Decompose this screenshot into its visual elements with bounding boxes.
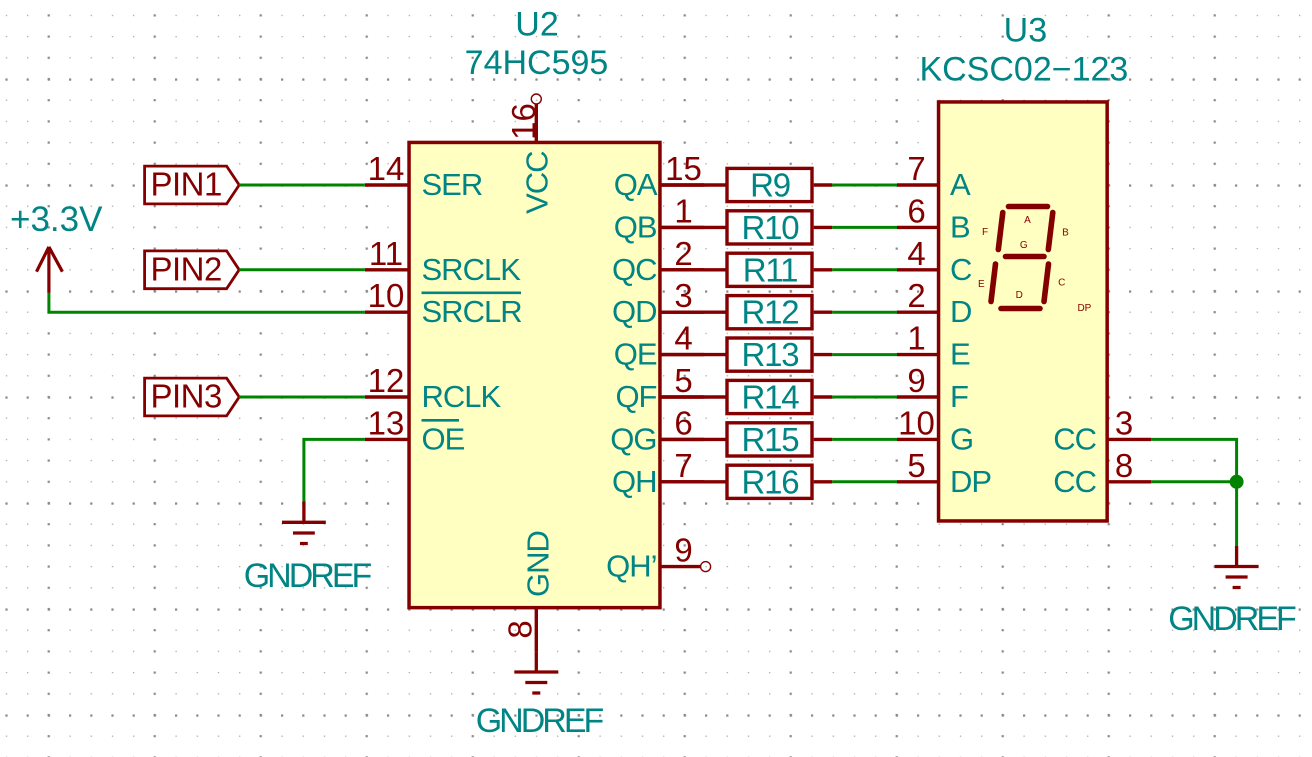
7-seg display segment E [991,264,996,302]
U2 pin name OE [422,421,465,456]
resistor R16 body [727,465,812,498]
svg-text:14: 14 [368,150,405,187]
resistor R14 body [727,380,812,413]
junction dot [1230,475,1244,489]
svg-text:VCC: VCC [519,151,554,214]
svg-text:QD: QD [612,294,657,329]
ground symbol GNDREF right [1215,546,1259,588]
wire QA-row1 U2 to R10 [661,226,727,229]
svg-text:15: 15 [665,150,702,187]
svg-text:PIN3: PIN3 [151,378,222,415]
svg-text:A: A [950,167,971,202]
svg-text:GNDREF: GNDREF [1168,600,1296,638]
7-seg label B [1062,228,1069,239]
resistor R13 label [742,336,799,373]
svg-text:2: 2 [674,235,692,272]
svg-text:+3.3V: +3.3V [10,200,103,239]
U3 reference label [1004,12,1047,50]
ground symbol GNDREF bottom [514,652,558,693]
wire QA-row4 U2 to R13 [661,353,727,356]
svg-text:10: 10 [898,404,935,441]
hierarchical label PIN1 text [151,166,222,203]
svg-text:QC: QC [612,252,657,287]
svg-text:U3: U3 [1004,12,1047,50]
U2 pin number 9 [674,532,692,569]
ground symbol GNDREF left [282,501,326,543]
U3 pin 9 F stub [897,395,937,398]
svg-text:R13: R13 [742,336,799,373]
power symbol +3.3V arrow [37,247,63,293]
U2 pin number 4 [674,320,692,357]
U2 pin number 16 [505,103,542,140]
hierarchical label PIN3 shape [145,378,240,416]
U2 pin 4 QE stub [661,353,704,356]
svg-text:8: 8 [502,620,539,638]
U2 pin number 8 [502,620,539,638]
U2 pin number 15 [665,150,702,187]
U3 pin number 10 [898,404,935,441]
wire QA-row6 U2 to R15 [661,438,727,441]
U2 reference label [515,6,558,44]
svg-text:R9: R9 [750,167,790,204]
U2 pin number 6 [674,404,692,441]
U2 pin name QH' [606,549,656,584]
7-seg display segment F [998,213,1003,250]
wire R15 to U3 [832,438,897,441]
U3 pin name CC [1053,464,1096,499]
U2 pin 15 QA stub [661,183,704,186]
U2 pin 13 OE stub [365,438,408,441]
svg-text:QG: QG [610,421,656,456]
svg-text:QH’: QH’ [606,549,656,584]
U3 pin name A [950,167,971,202]
svg-text:QA: QA [614,167,658,202]
wire R11 to U3 [832,268,897,271]
svg-text:PIN2: PIN2 [151,250,222,287]
svg-text:9: 9 [907,362,925,399]
U2 pin 16 unconnected circle [531,94,541,104]
U2 value 74HC595 [465,44,609,82]
U2 pin 6 QG stub [661,438,704,441]
svg-text:1: 1 [674,192,692,229]
U3 pin name E [950,337,970,372]
svg-text:6: 6 [907,192,925,229]
svg-text:SRCLR: SRCLR [422,294,522,329]
svg-text:2: 2 [907,277,925,314]
hierarchical label PIN2 text [151,250,222,287]
resistor R14 label [742,379,800,416]
wire QA-row5 U2 to R14 [661,395,727,398]
U2 pin 1 QB stub [661,226,704,229]
wire R9 to U3 [832,184,897,187]
U3 pin 10 G stub [897,438,937,441]
U2 pin number 1 [674,192,692,229]
U2 pin name SRCLK [422,252,522,287]
7-seg label E [978,279,985,290]
U3 pin name G [950,421,973,456]
svg-text:DP: DP [950,464,991,499]
wire R14 to U3 [832,396,897,399]
hierarchical label PIN1 shape [145,166,240,204]
svg-text:QF: QF [615,379,656,414]
U2 pin name QD [612,294,657,329]
U3 pin name B [950,209,970,244]
svg-text:QE: QE [614,337,657,372]
wire CC pin8 to junction [1151,480,1236,483]
svg-text:C: C [1058,277,1065,288]
svg-text:D: D [950,294,971,329]
U2 pin 5 QF stub [661,395,704,398]
wire QA-row0 U2 to R9 [661,183,727,186]
resistor R16 right pin [814,480,833,483]
OE overline [422,419,460,422]
svg-text:16: 16 [505,103,542,140]
resistor R12 body [727,296,812,329]
svg-text:GND: GND [520,531,555,597]
svg-text:6: 6 [674,404,692,441]
U2 pin name RCLK [422,379,502,414]
U3 pin 4 C stub [897,268,937,271]
svg-text:F: F [982,227,988,238]
svg-text:E: E [950,337,970,372]
U2 pin name QH [612,464,657,499]
U3 pin name D [950,294,971,329]
7-seg display segment G [1006,254,1045,260]
wire PIN1 to SER [239,184,365,187]
U2 pin name QA [614,167,658,202]
svg-text:PIN1: PIN1 [151,166,222,203]
U2 pin 10 SRCLR stub [365,311,408,314]
7-seg label F [982,227,988,238]
U2 pin 7 QH stub [661,480,704,483]
resistor R12 label [742,294,799,331]
svg-text:QB: QB [614,209,657,244]
GNDREF label bottom [476,702,604,740]
U3 pin number 7 [907,150,925,187]
resistor R14 right pin [814,395,833,398]
svg-text:U2: U2 [515,6,558,44]
resistor R13 right pin [814,353,833,356]
resistor R11 right pin [814,268,833,271]
U2 pin name GND [520,531,555,597]
7-seg display segment D [1001,306,1040,312]
wire OE to ground [304,439,365,501]
U2 pin number 10 [368,277,405,314]
U3 pin 7 A stub [897,183,937,186]
svg-text:C: C [950,252,972,287]
U2 pin 8 GND stub [535,609,538,652]
svg-text:G: G [1020,240,1028,251]
svg-text:KCSC02−123: KCSC02−123 [919,50,1128,88]
svg-text:GNDREF: GNDREF [244,557,372,595]
svg-text:G: G [950,421,973,456]
svg-text:13: 13 [368,404,405,441]
+3.3V label [10,200,103,239]
GNDREF label right [1168,600,1296,638]
U3 pin 1 E stub [897,353,937,356]
7-seg display segment A [1009,204,1048,210]
U3 pin name F [950,379,968,414]
resistor R11 label [743,251,798,288]
svg-text:B: B [1062,228,1069,239]
7-seg label DP [1077,303,1091,314]
svg-text:A: A [1024,215,1031,226]
svg-text:QH: QH [612,464,657,499]
resistor R10 body [727,211,812,244]
7-seg display segment B [1048,213,1053,250]
svg-text:R16: R16 [742,463,799,500]
U3 pin number 4 [907,235,925,272]
svg-text:4: 4 [907,235,925,272]
U2 pin number 11 [369,235,403,272]
U2 pin number 5 [674,362,692,399]
svg-text:SER: SER [422,167,483,202]
svg-text:DP: DP [1077,303,1091,314]
U2 pin number 13 [368,404,405,441]
wire R16 to U3 [832,480,897,483]
wire R12 to U3 [832,311,897,314]
U3 pin 6 B stub [897,226,937,229]
svg-text:R15: R15 [742,421,799,458]
svg-text:F: F [950,379,968,414]
svg-text:5: 5 [907,447,925,484]
svg-text:B: B [950,209,970,244]
U2 pin 2 QC stub [661,268,704,271]
U2 pin name SRCLR [422,294,522,329]
svg-text:3: 3 [1115,404,1133,441]
SRCLR overline [422,291,522,294]
U2 pin name QC [612,252,657,287]
U3 pin number 3 [1115,404,1133,441]
7-seg label G [1020,240,1028,251]
hierarchical label PIN2 shape [145,251,240,289]
svg-text:SRCLK: SRCLK [422,252,522,287]
resistor R11 body [727,253,812,286]
U2 pin name QF [615,379,656,414]
U3 pin number 6 [907,192,925,229]
U2 pin 12 RCLK stub [365,395,408,398]
svg-text:E: E [978,279,985,290]
7-seg label A [1024,215,1031,226]
wire +3.3V to SRCLR [49,293,365,312]
svg-text:7: 7 [674,447,692,484]
resistor R15 label [742,421,799,458]
U2 pin name VCC [519,151,554,214]
svg-text:4: 4 [674,320,692,357]
resistor R15 body [727,423,812,456]
svg-text:R10: R10 [742,209,800,246]
svg-text:9: 9 [674,532,692,569]
wire R13 to U3 [832,353,897,356]
wire QA-row3 U2 to R12 [661,311,727,314]
svg-text:5: 5 [674,362,692,399]
U2 pin name QE [614,337,657,372]
U3 pin 8 CC stub [1109,480,1152,483]
resistor R16 label [742,463,799,500]
U3 pin number 1 [907,320,925,357]
IC U3 body [939,102,1108,521]
U3 pin number 2 [907,277,925,314]
U2 pin name QB [614,209,657,244]
svg-text:1: 1 [907,320,925,357]
svg-text:R14: R14 [742,379,800,416]
svg-text:7: 7 [907,150,925,187]
resistor R9 body [727,168,812,201]
U2 pin 11 SRCLK stub [365,268,408,271]
hierarchical label PIN3 text [151,378,222,415]
svg-text:CC: CC [1053,421,1096,456]
svg-text:12: 12 [368,362,405,399]
U2 pin 16 VCC stub [535,104,538,142]
U3 pin number 8 [1115,447,1133,484]
svg-text:D: D [1016,290,1023,301]
U3 pin 5 DP stub [897,480,937,483]
U3 pin name DP [950,464,991,499]
wire QA-row2 U2 to R11 [661,268,727,271]
7-seg display segment C [1044,264,1049,302]
U3 pin name CC [1053,421,1096,456]
resistor R9 right pin [814,183,833,186]
U2 pin 3 QD stub [661,311,704,314]
svg-text:8: 8 [1115,447,1133,484]
IC U2 body [409,142,660,607]
wire QA-row7 U2 to R16 [661,480,727,483]
wire PIN3 to RCLK [239,396,365,399]
resistor R13 body [727,338,812,371]
U3 pin 2 D stub [897,311,937,314]
svg-text:GNDREF: GNDREF [476,702,604,740]
svg-text:11: 11 [369,235,403,272]
svg-text:74HC595: 74HC595 [465,44,609,82]
7-seg label D [1016,290,1023,301]
U3 pin 3 CC stub [1109,438,1152,441]
svg-text:10: 10 [368,277,405,314]
U2 pin number 7 [674,447,692,484]
U2 pin 14 SER stub [365,183,408,186]
U2 pin name SER [422,167,483,202]
resistor R10 label [742,209,800,246]
U2 pin name QG [610,421,656,456]
U2 pin number 12 [368,362,405,399]
U3 pin number 5 [907,447,925,484]
svg-text:R11: R11 [743,251,798,288]
U3 pin name C [950,252,972,287]
wire R10 to U3 [832,226,897,229]
U3 value KCSC02-123 [919,50,1128,88]
U2 pin number 14 [368,150,405,187]
resistor R12 right pin [814,311,833,314]
wire junction to ground [1235,482,1238,546]
wire CC pin3 to junction [1151,439,1236,481]
resistor R9 label [750,167,790,204]
GNDREF label left [244,557,372,595]
svg-text:3: 3 [674,277,692,314]
wire PIN2 to SRCLK [239,268,365,271]
svg-text:RCLK: RCLK [422,379,502,414]
svg-text:R12: R12 [742,294,799,331]
U2 pin number 3 [674,277,692,314]
U2 pin 9 QH' stub [661,565,700,568]
U2 pin number 2 [674,235,692,272]
U2 pin 9 unconnected circle [701,562,711,572]
resistor R15 right pin [814,438,833,441]
resistor R10 right pin [814,226,833,229]
svg-text:CC: CC [1053,464,1096,499]
svg-text:OE: OE [422,421,465,456]
U3 pin number 9 [907,362,925,399]
7-seg label C [1058,277,1065,288]
